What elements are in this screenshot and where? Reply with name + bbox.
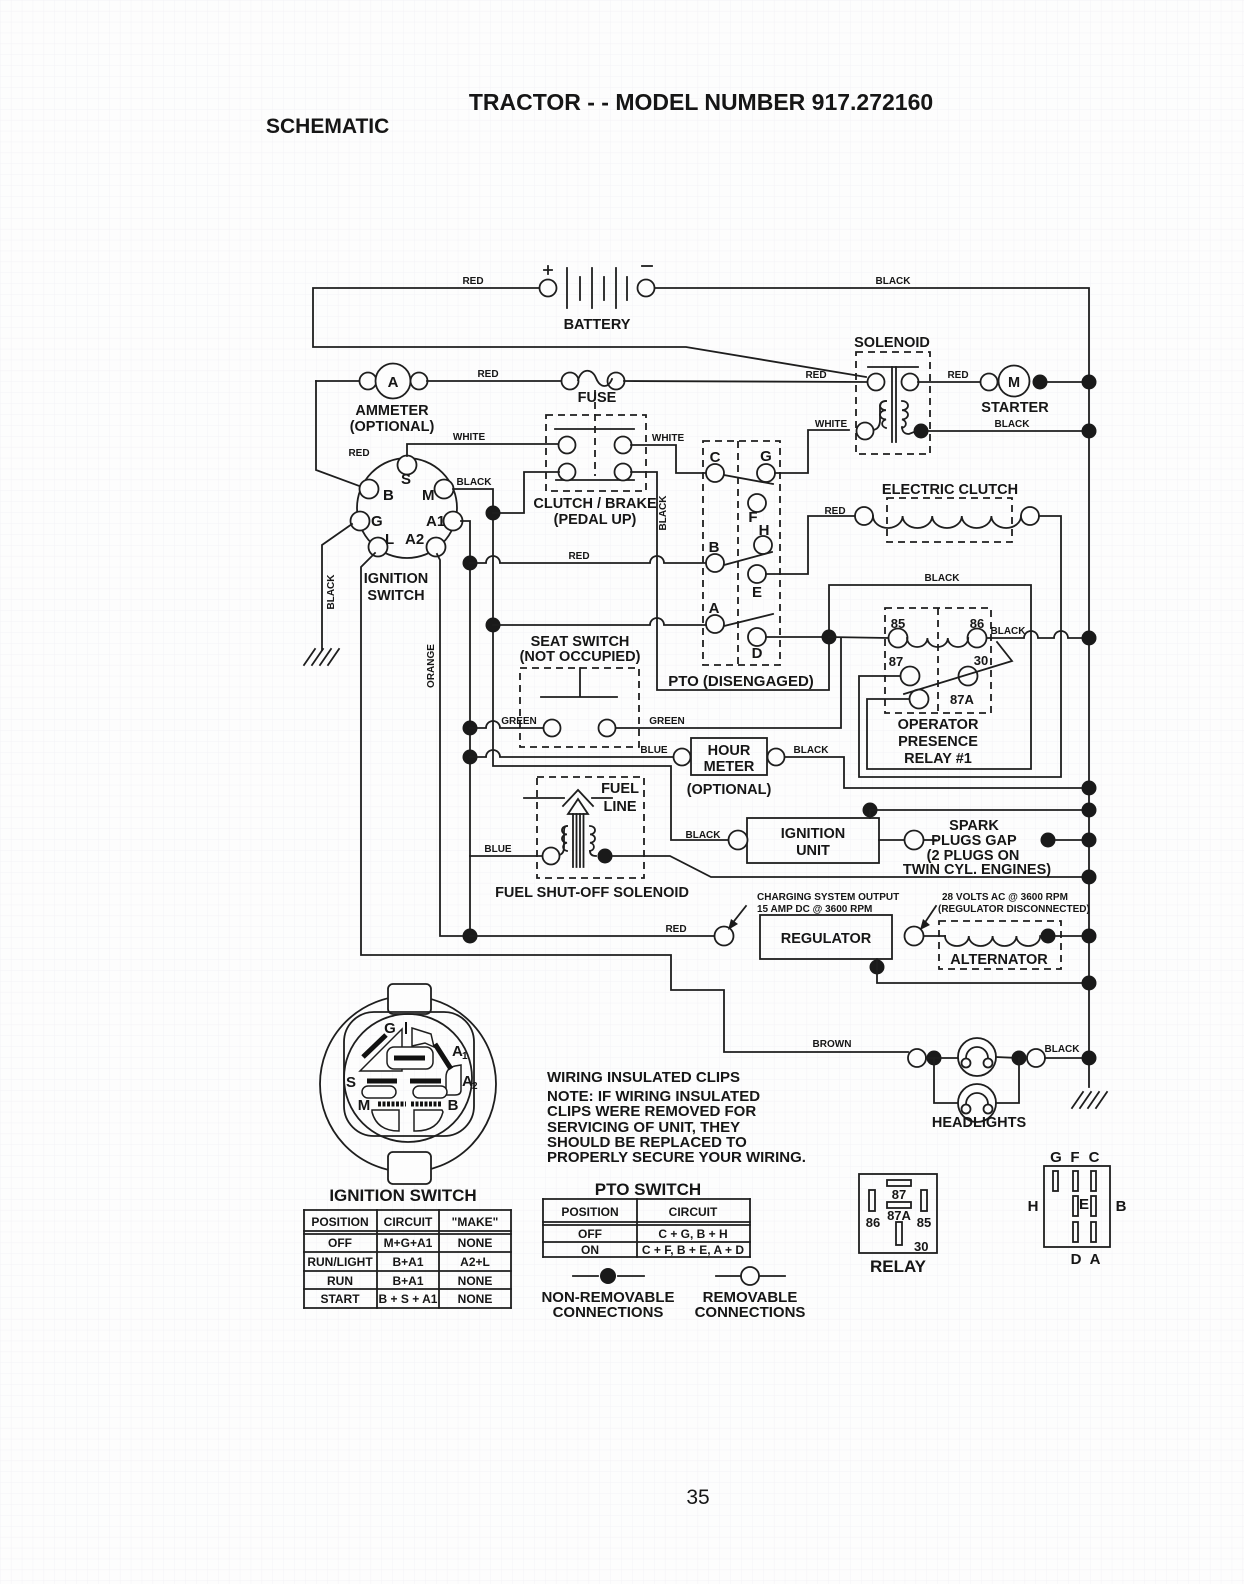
svg-text:BATTERY: BATTERY	[564, 317, 631, 333]
wire clutch LR down BLACK to relay net	[631, 472, 1031, 769]
PTO switch table	[543, 1180, 750, 1257]
svg-text:28 VOLTS AC @ 3600 RPM: 28 VOLTS AC @ 3600 RPM	[942, 892, 1068, 903]
wire fuel solenoid to right rail	[613, 856, 1097, 885]
svg-text:M+G+A1: M+G+A1	[384, 1236, 433, 1250]
svg-text:C: C	[710, 449, 721, 466]
svg-text:BLACK: BLACK	[794, 745, 830, 756]
svg-text:B: B	[448, 1097, 459, 1114]
svg-text:IGNITION: IGNITION	[781, 826, 845, 842]
svg-text:RUN/LIGHT: RUN/LIGHT	[307, 1255, 373, 1269]
engine connector socket diagram	[1028, 1149, 1127, 1268]
node relay junction (PTO D / coil / black net)	[822, 630, 837, 645]
svg-text:B: B	[1116, 1198, 1127, 1215]
svg-text:GREEN: GREEN	[649, 716, 685, 727]
svg-text:C + G, B + H: C + G, B + H	[658, 1227, 727, 1241]
svg-text:E: E	[1079, 1196, 1089, 1213]
svg-text:RED: RED	[462, 276, 483, 287]
svg-text:REGULATOR: REGULATOR	[781, 931, 872, 947]
seat switch (not occupied)	[520, 634, 641, 747]
svg-text:BLUE: BLUE	[484, 844, 512, 855]
wire L down to headlights BROWN	[361, 553, 908, 1052]
wire A2 orange down to regulator	[426, 554, 462, 936]
svg-text:BLACK: BLACK	[457, 477, 493, 488]
svg-text:BLACK: BLACK	[991, 626, 1027, 637]
ignition switch connector drawing	[320, 984, 496, 1205]
charging system output note with arrow	[728, 892, 899, 930]
svg-text:G: G	[760, 448, 772, 465]
svg-text:RED: RED	[568, 551, 589, 562]
svg-text:H: H	[1028, 1198, 1039, 1215]
ammeter A (optional)	[316, 364, 434, 436]
svg-text:CIRCUIT: CIRCUIT	[669, 1205, 718, 1219]
wire ammeter to fuse RED	[427, 369, 561, 381]
solenoid	[854, 335, 930, 454]
svg-text:87: 87	[892, 1187, 906, 1202]
svg-text:UNIT: UNIT	[796, 843, 830, 859]
svg-text:RED: RED	[947, 370, 968, 381]
svg-text:A2: A2	[405, 531, 424, 548]
svg-text:B + S + A1: B + S + A1	[379, 1292, 438, 1306]
svg-text:SPARK: SPARK	[949, 818, 999, 834]
wire hour meter BLACK to right rail	[785, 745, 1097, 796]
svg-text:NONE: NONE	[458, 1236, 493, 1250]
svg-text:PTO SWITCH: PTO SWITCH	[595, 1180, 701, 1199]
wire junction to regulator RED	[470, 924, 714, 936]
svg-text:POSITION: POSITION	[311, 1215, 368, 1229]
svg-text:F: F	[748, 509, 757, 526]
svg-text:METER: METER	[704, 759, 755, 775]
svg-text:CLUTCH / BRAKE: CLUTCH / BRAKE	[533, 496, 657, 512]
svg-text:IGNITION: IGNITION	[364, 571, 428, 587]
svg-text:S: S	[401, 471, 411, 488]
svg-text:"MAKE": "MAKE"	[452, 1215, 499, 1229]
svg-text:BROWN: BROWN	[813, 1039, 852, 1050]
spark plugs gap note	[903, 818, 1097, 878]
svg-text:M: M	[1008, 375, 1020, 391]
page number	[686, 1486, 709, 1509]
svg-text:M: M	[422, 487, 435, 504]
svg-text:B+A1: B+A1	[392, 1255, 423, 1269]
wire fuse to solenoid RED	[624, 370, 868, 382]
svg-text:ELECTRIC CLUTCH: ELECTRIC CLUTCH	[882, 482, 1018, 498]
legend removable connection	[695, 1267, 806, 1321]
wire relay 86 to right rail BLACK with hops	[987, 626, 1097, 646]
svg-text:RUN: RUN	[327, 1274, 353, 1288]
svg-text:SEAT SWITCH: SEAT SWITCH	[531, 634, 630, 650]
svg-text:SWITCH: SWITCH	[367, 588, 424, 604]
svg-text:F: F	[1070, 1149, 1079, 1166]
relay pin diagram	[859, 1174, 937, 1276]
svg-text:CONNECTIONS: CONNECTIONS	[695, 1304, 806, 1321]
svg-text:E: E	[752, 584, 762, 601]
wire electric clutch to relay 87	[859, 516, 1061, 777]
svg-text:A: A	[709, 600, 720, 617]
svg-text:A1: A1	[426, 513, 445, 530]
svg-text:ALTERNATOR: ALTERNATOR	[950, 952, 1048, 968]
svg-text:G: G	[1050, 1149, 1062, 1166]
svg-text:D: D	[752, 645, 763, 662]
svg-text:OPERATOR: OPERATOR	[898, 717, 979, 733]
svg-text:B+A1: B+A1	[392, 1274, 423, 1288]
wire M BLACK down to ignition unit	[453, 477, 728, 841]
ignition switch	[351, 456, 463, 605]
svg-text:OFF: OFF	[578, 1227, 602, 1241]
svg-text:START: START	[320, 1292, 360, 1306]
svg-text:PLUGS GAP: PLUGS GAP	[931, 833, 1017, 849]
wire BLUE A1-line to hour meter	[463, 745, 674, 765]
svg-text:RED: RED	[665, 924, 686, 935]
ignition switch table	[304, 1210, 511, 1308]
svg-text:A2+L: A2+L	[460, 1255, 490, 1269]
svg-text:LINE: LINE	[603, 799, 636, 815]
PTO switch (disengaged)	[668, 441, 814, 690]
svg-text:GREEN: GREEN	[501, 716, 537, 727]
svg-text:CHARGING SYSTEM OUTPUT: CHARGING SYSTEM OUTPUT	[757, 892, 899, 903]
wire battery positive RED: left rail down and across to solenoid	[313, 276, 866, 377]
svg-text:87A: 87A	[950, 692, 974, 707]
svg-text:15 AMP DC @ 3600 RPM: 15 AMP DC @ 3600 RPM	[757, 904, 872, 915]
wire M-line to PTO A with hop	[486, 618, 708, 633]
svg-text:ORANGE: ORANGE	[426, 644, 437, 688]
28 volts AC note with arrow	[920, 892, 1090, 930]
svg-text:BLACK: BLACK	[1045, 1044, 1081, 1055]
wire clutch UR to PTO C WHITE	[631, 433, 707, 473]
svg-text:30: 30	[914, 1239, 928, 1254]
svg-text:RED: RED	[805, 370, 826, 381]
svg-text:L: L	[385, 531, 394, 548]
ground (right rail)	[1072, 1092, 1107, 1108]
svg-text:RED: RED	[824, 506, 845, 517]
svg-text:PTO (DISENGAGED): PTO (DISENGAGED)	[668, 673, 814, 690]
svg-text:C + F, B + E, A + D: C + F, B + E, A + D	[642, 1243, 744, 1257]
svg-text:35: 35	[686, 1486, 709, 1509]
svg-text:(OPTIONAL): (OPTIONAL)	[687, 782, 772, 798]
wire PTO D to relay node	[766, 636, 829, 638]
svg-text:B: B	[709, 539, 720, 556]
ground (ignition switch)	[304, 649, 339, 665]
wire A1 down: taps for PTO B, seat, hour meter, fuel, regulator	[461, 521, 470, 936]
wire solenoid coil to right rail BLACK	[928, 419, 1097, 439]
svg-text:RELAY #1: RELAY #1	[904, 751, 972, 767]
svg-text:A: A	[388, 374, 399, 391]
svg-text:BLUE: BLUE	[640, 745, 668, 756]
svg-text:(PEDAL UP): (PEDAL UP)	[554, 512, 637, 528]
svg-text:D: D	[1071, 1251, 1082, 1268]
electric clutch	[855, 482, 1039, 542]
svg-text:WHITE: WHITE	[652, 433, 685, 444]
wire PTO E up to electric clutch RED	[766, 506, 855, 574]
svg-text:WIRING INSULATED CLIPS: WIRING INSULATED CLIPS	[547, 1069, 740, 1086]
node A1/A2/regulator junction	[463, 929, 478, 944]
svg-text:86: 86	[866, 1215, 880, 1230]
svg-text:FUEL SHUT-OFF SOLENOID: FUEL SHUT-OFF SOLENOID	[495, 885, 689, 901]
clutch / brake switch (pedal up)	[533, 390, 657, 528]
svg-text:RED: RED	[477, 369, 498, 380]
svg-text:SCHEMATIC: SCHEMATIC	[266, 115, 389, 138]
wire G to ground BLACK	[322, 524, 352, 650]
svg-text:S: S	[346, 1074, 356, 1091]
svg-text:TRACTOR - - MODEL NUMBER 917.2: TRACTOR - - MODEL NUMBER 917.272160	[469, 89, 933, 115]
wire battery negative BLACK: to right rail, down to ground	[654, 276, 1089, 1087]
wire M-line to clutch LL	[486, 472, 560, 521]
svg-text:FUEL: FUEL	[601, 781, 639, 797]
wire solenoid to starter RED	[918, 370, 981, 382]
wiring insulated clips note	[547, 1069, 806, 1166]
wire GREEN A1-line to seat switch	[463, 716, 544, 736]
regulator	[715, 915, 924, 959]
svg-text:FUSE: FUSE	[578, 390, 617, 406]
ignition unit	[729, 818, 937, 863]
svg-text:BLACK: BLACK	[658, 495, 669, 531]
fuse	[562, 371, 625, 406]
fuel shut-off solenoid	[495, 777, 689, 901]
svg-text:(OPTIONAL): (OPTIONAL)	[350, 419, 435, 435]
alternator	[924, 921, 1097, 969]
svg-text:IGNITION SWITCH: IGNITION SWITCH	[329, 1186, 476, 1205]
svg-text:G: G	[371, 513, 383, 530]
wire GREEN seat switch to relay coil	[616, 638, 841, 728]
wire PTO G up to solenoid WHITE	[775, 419, 849, 473]
svg-text:NONE: NONE	[458, 1274, 493, 1288]
svg-text:2: 2	[472, 1081, 478, 1092]
svg-text:WHITE: WHITE	[815, 419, 848, 430]
headlights	[908, 1038, 1097, 1131]
svg-text:WHITE: WHITE	[453, 432, 486, 443]
svg-text:CIRCUIT: CIRCUIT	[384, 1215, 433, 1229]
svg-text:BLACK: BLACK	[686, 830, 722, 841]
starter motor M	[981, 366, 1097, 417]
svg-text:CONNECTIONS: CONNECTIONS	[553, 1304, 664, 1321]
svg-text:B: B	[383, 487, 394, 504]
svg-text:NONE: NONE	[458, 1292, 493, 1306]
legend non-removable connection	[541, 1268, 674, 1321]
operator presence relay #1	[885, 608, 1012, 767]
wire S to clutch/brake WHITE	[407, 432, 559, 456]
svg-text:SOLENOID: SOLENOID	[854, 335, 930, 351]
svg-text:87: 87	[889, 654, 903, 669]
svg-text:ON: ON	[581, 1243, 599, 1257]
svg-text:BLACK: BLACK	[925, 573, 961, 584]
svg-text:TWIN CYL. ENGINES): TWIN CYL. ENGINES)	[903, 862, 1051, 878]
svg-text:STARTER: STARTER	[981, 400, 1049, 416]
wire ignition unit top to right rail	[863, 803, 1097, 819]
svg-text:RED: RED	[348, 448, 369, 459]
battery	[540, 266, 655, 333]
svg-text:HEADLIGHTS: HEADLIGHTS	[932, 1115, 1027, 1131]
svg-text:87A: 87A	[887, 1208, 911, 1223]
wire BLUE A1-line to fuel solenoid	[470, 844, 542, 856]
svg-text:(NOT OCCUPIED): (NOT OCCUPIED)	[520, 649, 641, 665]
wire regulator bottom to right rail	[870, 959, 1097, 991]
svg-text:RELAY: RELAY	[870, 1257, 927, 1276]
svg-text:30: 30	[974, 653, 988, 668]
svg-text:PRESENCE: PRESENCE	[898, 734, 978, 750]
svg-text:M: M	[358, 1097, 371, 1114]
svg-text:C: C	[1089, 1149, 1100, 1166]
svg-text:(REGULATOR DISCONNECTED): (REGULATOR DISCONNECTED)	[938, 904, 1090, 915]
svg-text:85: 85	[917, 1215, 931, 1230]
wire RED to PTO B with hops	[463, 551, 708, 571]
wire relay node to coil 85	[829, 637, 888, 638]
svg-text:G: G	[384, 1020, 396, 1037]
title	[266, 89, 933, 138]
svg-text:PROPERLY SECURE YOUR WIRING.: PROPERLY SECURE YOUR WIRING.	[547, 1149, 806, 1166]
svg-text:POSITION: POSITION	[561, 1205, 618, 1219]
svg-text:BLACK: BLACK	[876, 276, 912, 287]
svg-text:BLACK: BLACK	[326, 574, 337, 610]
svg-text:AMMETER: AMMETER	[355, 403, 429, 419]
hour meter (optional)	[674, 738, 785, 798]
svg-text:BLACK: BLACK	[995, 419, 1031, 430]
wire ammeter branch down to ignition B	[316, 381, 370, 487]
svg-text:CLIPS WERE REMOVED FOR: CLIPS WERE REMOVED FOR	[547, 1103, 756, 1120]
svg-text:HOUR: HOUR	[708, 743, 751, 759]
svg-text:OFF: OFF	[328, 1236, 352, 1250]
svg-text:A: A	[1090, 1251, 1101, 1268]
svg-text:H: H	[759, 522, 770, 539]
svg-text:1: 1	[462, 1051, 468, 1062]
